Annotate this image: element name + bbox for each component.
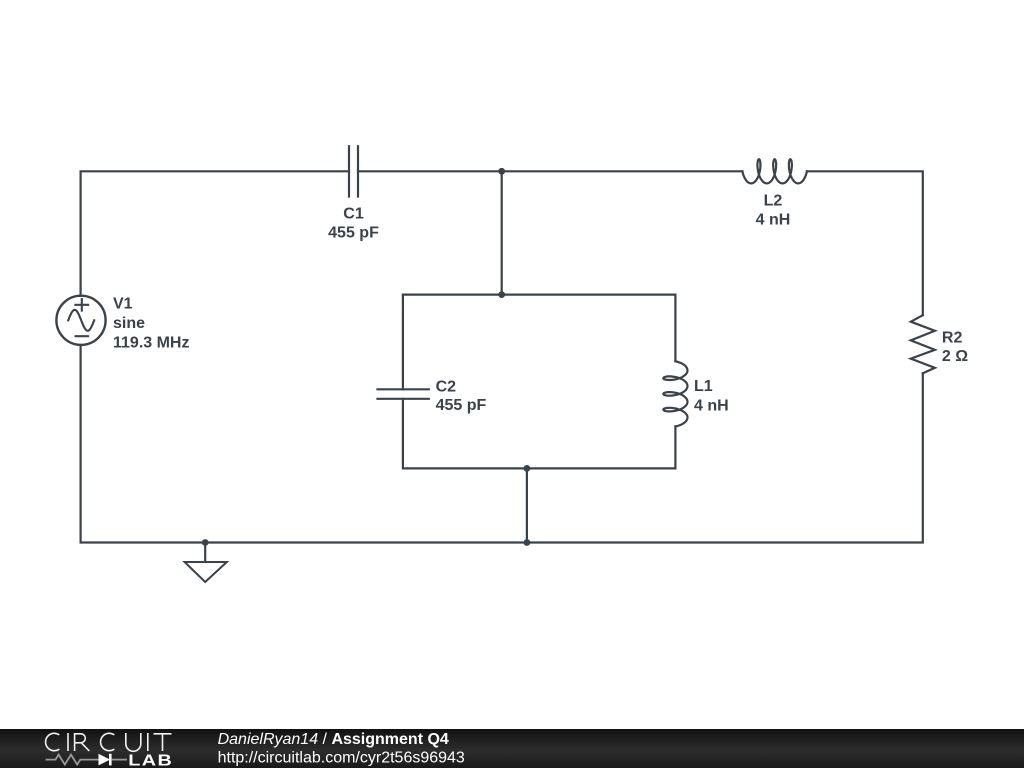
svg-text:455 pF: 455 pF: [328, 224, 379, 241]
svg-text:LAB: LAB: [128, 752, 173, 768]
svg-text:C1: C1: [343, 206, 364, 223]
svg-text:sine: sine: [113, 315, 145, 332]
svg-text:4 nH: 4 nH: [756, 211, 791, 228]
svg-text:DanielRyan14 / Assignment Q4: DanielRyan14 / Assignment Q4: [218, 731, 449, 748]
svg-text:L2: L2: [764, 193, 783, 210]
svg-text:4 nH: 4 nH: [694, 397, 729, 414]
svg-text:R2: R2: [942, 329, 963, 346]
svg-text:L1: L1: [694, 378, 713, 395]
svg-text:V1: V1: [113, 296, 133, 313]
svg-text:http://circuitlab.com/cyr2t56s: http://circuitlab.com/cyr2t56s96943: [218, 750, 465, 767]
svg-text:119.3 MHz: 119.3 MHz: [113, 335, 189, 352]
svg-text:2 Ω: 2 Ω: [942, 348, 968, 365]
svg-text:C2: C2: [436, 379, 457, 396]
svg-text:455 pF: 455 pF: [436, 397, 487, 414]
